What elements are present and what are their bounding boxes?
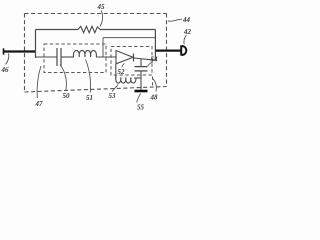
capacitor 50 right plate <box>60 48 62 66</box>
capacitor 50 left plate <box>56 48 58 66</box>
feedback top wire left segment <box>36 29 79 31</box>
input terminal tick <box>3 48 5 54</box>
capacitor 54 top lead <box>140 59 142 67</box>
output terminal 42 bar <box>180 45 182 55</box>
svg-text:45: 45 <box>97 3 106 11</box>
label 55 leader <box>137 94 141 103</box>
capacitor 54 bottom lead <box>140 71 142 90</box>
coil 53 wire to ground lead <box>134 77 141 79</box>
svg-text:46: 46 <box>1 66 10 74</box>
capacitor 54 top plate <box>135 66 148 68</box>
amplifier box 48 right-edge dash extension <box>152 77 154 87</box>
input wire (thick) <box>4 50 37 52</box>
output terminal 42 dome <box>182 46 187 55</box>
svg-text:48: 48 <box>150 93 159 101</box>
resistor 45 <box>78 26 100 32</box>
output wire (thick) <box>155 49 180 51</box>
svg-text:42: 42 <box>183 28 192 36</box>
label 54 leader <box>148 62 153 66</box>
feedback top wire right segment <box>100 29 155 31</box>
ground 55 bar <box>135 90 148 93</box>
wire: capacitor 50 to inductor 51 <box>61 56 74 58</box>
inductor 51 <box>73 50 96 57</box>
label 52 leader <box>122 64 125 68</box>
svg-text:52: 52 <box>118 68 126 76</box>
outer dashed box 44 right edge <box>166 14 168 87</box>
svg-text:47: 47 <box>35 100 44 108</box>
outer dashed box 44 top edge <box>25 13 167 15</box>
bias wire left vertical <box>102 38 104 57</box>
label 45 leader <box>100 11 103 27</box>
label 50 leader <box>60 65 66 91</box>
resonator dashed box 47 <box>44 44 106 73</box>
label 53 leader <box>112 85 118 92</box>
outer dashed box 44 bottom edge <box>25 87 167 93</box>
wire: diode output to right vertical <box>134 58 155 60</box>
feedback right vertical wire <box>154 30 156 61</box>
label 51 leader <box>86 60 91 93</box>
diode 52 cathode bar <box>133 54 135 62</box>
label 48 leader <box>152 79 156 92</box>
svg-text:51: 51 <box>86 94 93 102</box>
svg-text:54: 54 <box>151 56 159 64</box>
label 47 leader <box>37 66 41 98</box>
bias wire top horizontal <box>103 37 155 39</box>
label 46 leader <box>6 54 9 65</box>
label 44 leader <box>168 19 182 21</box>
capacitor 54 bottom plate <box>135 70 148 72</box>
diode 52 triangle <box>116 51 133 64</box>
outer dashed box 44 left edge <box>24 14 26 93</box>
coil 53 <box>116 78 136 84</box>
wire: inductor 51 to diode 52 <box>96 56 116 58</box>
wire: node to capacitor 50 <box>36 56 58 58</box>
feedback left vertical wire <box>35 30 37 59</box>
svg-text:53: 53 <box>109 92 117 100</box>
label 42 leader <box>184 35 186 44</box>
svg-text:55: 55 <box>137 104 145 112</box>
svg-text:50: 50 <box>63 92 71 100</box>
svg-text:44: 44 <box>182 16 191 24</box>
coil 53 riser from diode <box>115 64 117 78</box>
amplifier dashed box 48 <box>111 47 152 76</box>
